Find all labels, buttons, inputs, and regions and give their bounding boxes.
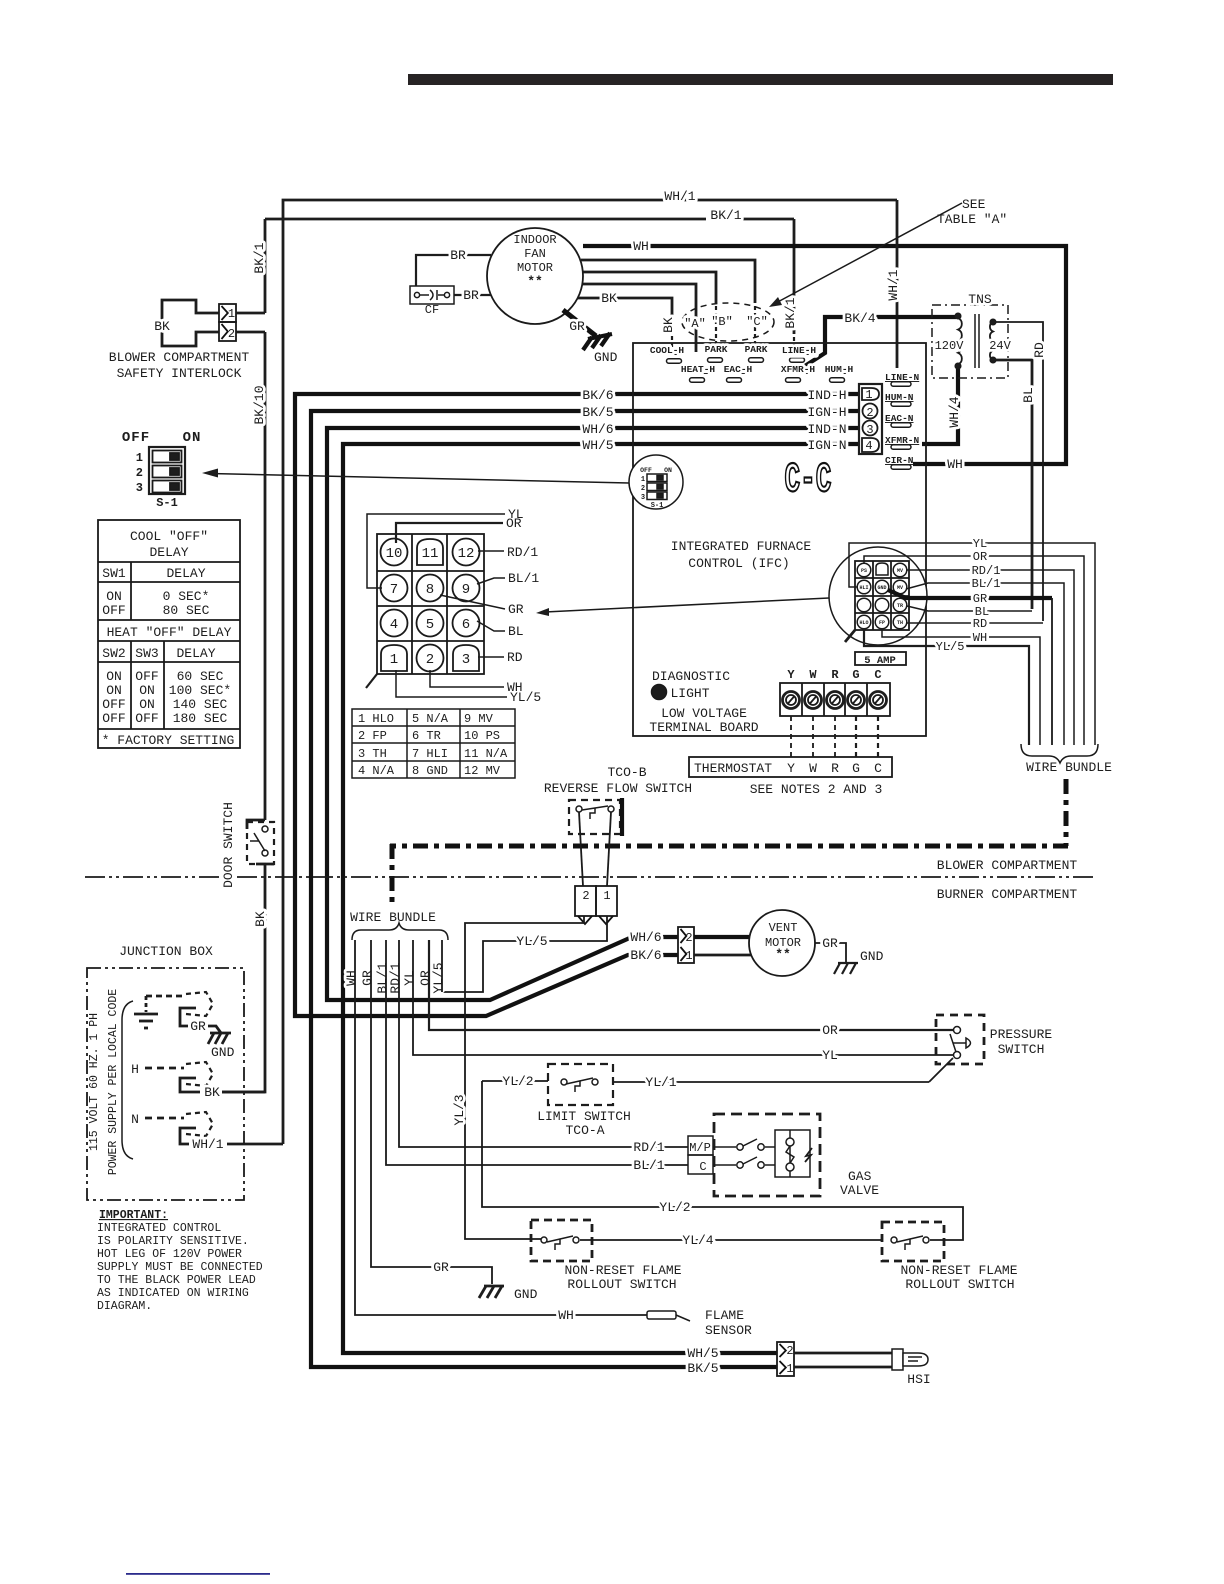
svg-text:OFF: OFF <box>122 430 150 446</box>
svg-text:RD: RD <box>973 617 987 631</box>
svg-text:1: 1 <box>786 1362 793 1376</box>
svg-text:W: W <box>809 761 817 776</box>
svg-text:HOT LEG OF 120V POWER: HOT LEG OF 120V POWER <box>97 1248 242 1261</box>
svg-text:WH/1: WH/1 <box>664 189 695 204</box>
svg-text:IMPORTANT:: IMPORTANT: <box>99 1209 168 1222</box>
svg-text:H: H <box>131 1062 139 1077</box>
svg-text:COOL-H: COOL-H <box>650 345 685 356</box>
svg-text:SENSOR: SENSOR <box>705 1323 752 1338</box>
svg-text:LOW VOLTAGE: LOW VOLTAGE <box>661 706 747 721</box>
svg-text:12 MV: 12 MV <box>464 764 501 778</box>
svg-text:WH: WH <box>558 1308 574 1323</box>
svg-text:DIAGNOSTIC: DIAGNOSTIC <box>652 669 730 684</box>
svg-text:C: C <box>699 1160 706 1174</box>
svg-text:BLOWER COMPARTMENT: BLOWER COMPARTMENT <box>937 858 1078 873</box>
svg-text:RD: RD <box>507 650 523 665</box>
svg-text:WIRE BUNDLE: WIRE BUNDLE <box>1026 760 1112 775</box>
svg-text:9 MV: 9 MV <box>464 712 494 726</box>
svg-text:WH: WH <box>947 457 963 472</box>
svg-text:GR: GR <box>360 970 375 986</box>
svg-text:GR: GR <box>190 1019 206 1034</box>
svg-text:BL: BL <box>508 624 524 639</box>
svg-text:7 HLI: 7 HLI <box>412 747 448 761</box>
svg-text:BK: BK <box>661 317 676 333</box>
svg-text:YL: YL <box>402 970 417 986</box>
svg-text:IND-H: IND-H <box>807 388 846 403</box>
svg-text:DELAY: DELAY <box>166 566 205 581</box>
svg-text:1: 1 <box>228 307 235 321</box>
svg-text:"A": "A" <box>684 317 706 331</box>
svg-text:5: 5 <box>426 617 434 633</box>
svg-text:ON: ON <box>139 697 155 712</box>
svg-text:BK: BK <box>204 1085 220 1100</box>
svg-text:OR: OR <box>973 550 987 564</box>
svg-text:YL: YL <box>973 537 987 551</box>
svg-text:LINE-H: LINE-H <box>782 345 817 356</box>
svg-text:120V: 120V <box>935 339 965 353</box>
svg-text:YL/2: YL/2 <box>659 1200 690 1215</box>
svg-text:C: C <box>874 761 882 776</box>
svg-text:24V: 24V <box>989 339 1011 353</box>
svg-text:G: G <box>852 668 859 682</box>
svg-text:BK/4: BK/4 <box>844 311 875 326</box>
svg-text:1: 1 <box>603 889 610 903</box>
svg-text:BL/1: BL/1 <box>508 571 539 586</box>
svg-text:RD/1: RD/1 <box>633 1140 664 1155</box>
svg-text:100 SEC*: 100 SEC* <box>169 683 231 698</box>
svg-text:BK/5: BK/5 <box>687 1361 718 1376</box>
svg-text:BL/1: BL/1 <box>633 1158 664 1173</box>
svg-text:YL: YL <box>822 1048 838 1063</box>
svg-text:PS: PS <box>861 568 867 574</box>
svg-text:OFF: OFF <box>102 697 125 712</box>
svg-text:MV: MV <box>897 568 903 574</box>
svg-text:HLI: HLI <box>859 585 868 591</box>
svg-text:MV: MV <box>897 585 903 591</box>
svg-text:2: 2 <box>426 652 434 668</box>
svg-text:JUNCTION BOX: JUNCTION BOX <box>119 944 213 959</box>
svg-text:* FACTORY SETTING: * FACTORY SETTING <box>102 733 235 748</box>
svg-text:10: 10 <box>386 546 403 562</box>
svg-text:12: 12 <box>458 546 475 562</box>
svg-text:GR: GR <box>973 592 987 606</box>
svg-text:Y: Y <box>787 668 795 682</box>
svg-text:VALVE: VALVE <box>840 1183 879 1198</box>
svg-text:GR: GR <box>433 1260 449 1275</box>
svg-text:BR: BR <box>450 248 466 263</box>
svg-text:DELAY: DELAY <box>149 545 188 560</box>
svg-text:HSI: HSI <box>907 1372 930 1387</box>
svg-text:XFMR-H: XFMR-H <box>781 364 816 375</box>
svg-text:2: 2 <box>228 327 235 341</box>
svg-text:THERMOSTAT: THERMOSTAT <box>694 761 772 776</box>
svg-text:S-1: S-1 <box>156 496 178 510</box>
svg-text:PARK: PARK <box>745 344 768 355</box>
svg-text:2 FP: 2 FP <box>358 729 387 743</box>
svg-text:YL/3: YL/3 <box>452 1094 467 1125</box>
svg-text:3: 3 <box>136 481 143 495</box>
svg-text:9: 9 <box>462 582 470 598</box>
svg-text:INTEGRATED FURNACE: INTEGRATED FURNACE <box>671 539 812 554</box>
svg-text:YL/1: YL/1 <box>645 1075 676 1090</box>
svg-text:FAN: FAN <box>524 247 546 261</box>
svg-text:ROLLOUT SWITCH: ROLLOUT SWITCH <box>905 1277 1014 1292</box>
svg-text:SAFETY INTERLOCK: SAFETY INTERLOCK <box>117 366 242 381</box>
svg-text:S-1: S-1 <box>651 502 664 510</box>
svg-text:2: 2 <box>685 931 692 945</box>
svg-text:SW3: SW3 <box>135 646 158 661</box>
svg-text:GR: GR <box>822 936 838 951</box>
svg-text:ON: ON <box>139 683 155 698</box>
svg-text:OFF: OFF <box>135 669 158 684</box>
svg-text:ON: ON <box>106 669 122 684</box>
svg-text:HEAT-H: HEAT-H <box>681 364 716 375</box>
svg-text:BK/1: BK/1 <box>252 242 267 273</box>
svg-text:DIAGRAM.: DIAGRAM. <box>97 1300 152 1313</box>
svg-text:BK: BK <box>154 319 170 334</box>
svg-text:ON: ON <box>664 467 672 474</box>
svg-text:BK/5: BK/5 <box>582 405 613 420</box>
svg-text:3: 3 <box>462 652 470 668</box>
svg-text:8: 8 <box>426 582 434 598</box>
svg-text:3: 3 <box>866 423 873 437</box>
svg-text:N: N <box>131 1112 139 1127</box>
svg-text:WH/6: WH/6 <box>582 422 613 437</box>
svg-text:YL/2: YL/2 <box>502 1074 533 1089</box>
svg-text:CF: CF <box>425 303 439 317</box>
svg-text:RD/1: RD/1 <box>388 962 403 993</box>
svg-text:YL/5: YL/5 <box>431 962 446 993</box>
svg-text:BK/1: BK/1 <box>783 297 798 328</box>
svg-text:"C": "C" <box>746 315 768 329</box>
svg-text:4: 4 <box>390 617 398 633</box>
svg-text:LIGHT: LIGHT <box>670 686 709 701</box>
svg-text:BL/1: BL/1 <box>972 577 1001 591</box>
svg-text:140 SEC: 140 SEC <box>173 697 228 712</box>
svg-text:YL/5: YL/5 <box>510 690 541 705</box>
svg-text:WH/1: WH/1 <box>192 1137 223 1152</box>
svg-text:TERMINAL BOARD: TERMINAL BOARD <box>649 720 758 735</box>
svg-text:GND: GND <box>594 350 618 365</box>
svg-text:**: ** <box>775 947 791 962</box>
svg-text:RD: RD <box>1032 342 1047 358</box>
svg-text:WH/1: WH/1 <box>886 269 901 300</box>
svg-text:7: 7 <box>390 582 398 598</box>
svg-text:BK/1: BK/1 <box>710 208 741 223</box>
svg-text:SEE: SEE <box>962 197 986 212</box>
svg-text:OFF: OFF <box>102 603 125 618</box>
svg-text:ON: ON <box>183 430 202 446</box>
svg-text:GND: GND <box>514 1287 538 1302</box>
svg-text:SEE NOTES 2 AND 3: SEE NOTES 2 AND 3 <box>750 782 883 797</box>
svg-text:WH/5: WH/5 <box>582 438 613 453</box>
svg-text:GR: GR <box>508 602 524 617</box>
svg-text:WH: WH <box>633 239 649 254</box>
svg-text:VENT: VENT <box>769 921 798 935</box>
svg-text:"B": "B" <box>711 315 733 329</box>
svg-text:10 PS: 10 PS <box>464 729 500 743</box>
svg-text:TCO-A: TCO-A <box>565 1123 604 1138</box>
svg-text:1: 1 <box>390 652 398 668</box>
svg-text:POWER SUPPLY PER LOCAL CODE: POWER SUPPLY PER LOCAL CODE <box>107 989 120 1175</box>
svg-text:TNS: TNS <box>968 292 992 307</box>
svg-text:LIMIT SWITCH: LIMIT SWITCH <box>537 1109 631 1124</box>
svg-text:IS POLARITY SENSITIVE.: IS POLARITY SENSITIVE. <box>97 1235 249 1248</box>
svg-text:TO THE BLACK POWER LEAD: TO THE BLACK POWER LEAD <box>97 1274 256 1287</box>
svg-text:3 TH: 3 TH <box>358 747 387 761</box>
svg-text:6 TR: 6 TR <box>412 729 441 743</box>
svg-text:BL: BL <box>1021 387 1036 403</box>
svg-text:TH: TH <box>897 620 903 626</box>
svg-text:SUPPLY MUST BE CONNECTED: SUPPLY MUST BE CONNECTED <box>97 1261 263 1274</box>
svg-text:NON-RESET FLAME: NON-RESET FLAME <box>564 1263 681 1278</box>
svg-text:DELAY: DELAY <box>176 646 215 661</box>
svg-text:NON-RESET FLAME: NON-RESET FLAME <box>900 1263 1017 1278</box>
svg-text:4 N/A: 4 N/A <box>358 764 395 778</box>
svg-text:SW2: SW2 <box>102 646 125 661</box>
svg-text:0 SEC*: 0 SEC* <box>163 589 210 604</box>
svg-text:2: 2 <box>641 485 645 493</box>
svg-text:BK/6: BK/6 <box>582 388 613 403</box>
svg-text:OFF: OFF <box>135 711 158 726</box>
svg-text:G: G <box>852 761 860 776</box>
svg-text:GND: GND <box>211 1045 235 1060</box>
svg-text:2: 2 <box>582 889 589 903</box>
svg-text:ON: ON <box>106 589 122 604</box>
svg-text:1: 1 <box>865 388 872 402</box>
svg-text:R: R <box>831 668 839 682</box>
svg-text:1 HLO: 1 HLO <box>358 712 394 726</box>
svg-text:OFF: OFF <box>640 467 652 474</box>
svg-text:1: 1 <box>641 476 645 484</box>
svg-text:SW1: SW1 <box>102 566 126 581</box>
svg-text:WH/6: WH/6 <box>630 930 661 945</box>
svg-text:REVERSE FLOW SWITCH: REVERSE FLOW SWITCH <box>544 781 692 796</box>
svg-text:INDOOR: INDOOR <box>513 233 556 247</box>
svg-text:GR: GR <box>569 319 585 334</box>
svg-text:C: C <box>874 668 881 682</box>
svg-text:FP: FP <box>879 620 885 626</box>
svg-text:DOOR SWITCH: DOOR SWITCH <box>221 802 236 888</box>
svg-text:OR: OR <box>822 1023 838 1038</box>
svg-text:GND: GND <box>877 585 886 591</box>
svg-text:TABLE "A": TABLE "A" <box>937 212 1007 227</box>
svg-text:FLAME: FLAME <box>705 1308 744 1323</box>
svg-text:BR: BR <box>463 288 479 303</box>
svg-text:YL/5: YL/5 <box>936 640 965 654</box>
svg-text:ON: ON <box>106 683 122 698</box>
svg-text:5 N/A: 5 N/A <box>412 712 449 726</box>
svg-text:BK: BK <box>253 911 268 927</box>
svg-text:BURNER COMPARTMENT: BURNER COMPARTMENT <box>937 887 1078 902</box>
svg-text:WH: WH <box>973 631 987 645</box>
svg-text:CONTROL (IFC): CONTROL (IFC) <box>688 556 789 571</box>
svg-text:5 AMP: 5 AMP <box>864 655 896 667</box>
svg-text:BK/10: BK/10 <box>252 385 267 424</box>
svg-text:TCO-B: TCO-B <box>607 765 646 780</box>
svg-text:1: 1 <box>685 949 692 963</box>
svg-text:GND: GND <box>860 949 884 964</box>
svg-text:Y: Y <box>787 761 795 776</box>
svg-text:YL/5: YL/5 <box>516 934 547 949</box>
svg-text:2: 2 <box>786 1344 793 1358</box>
svg-text:WH/4: WH/4 <box>947 396 962 427</box>
svg-text:WH: WH <box>344 970 359 986</box>
svg-text:WH/5: WH/5 <box>687 1346 718 1361</box>
svg-text:IND-N: IND-N <box>807 422 846 437</box>
svg-text:GAS: GAS <box>848 1169 872 1184</box>
svg-text:2: 2 <box>866 406 873 420</box>
svg-text:BK: BK <box>601 291 617 306</box>
svg-text:OFF: OFF <box>102 711 125 726</box>
svg-text:COOL "OFF": COOL "OFF" <box>130 529 208 544</box>
svg-text:8 GND: 8 GND <box>412 764 448 778</box>
svg-text:INTEGRATED CONTROL: INTEGRATED CONTROL <box>97 1222 221 1235</box>
svg-text:11: 11 <box>422 546 439 562</box>
svg-text:W: W <box>809 668 817 682</box>
svg-text:M/P: M/P <box>689 1141 711 1155</box>
svg-text:3: 3 <box>641 494 645 502</box>
svg-text:TR: TR <box>897 603 903 609</box>
svg-text:WIRE BUNDLE: WIRE BUNDLE <box>350 910 436 925</box>
svg-text:11 N/A: 11 N/A <box>464 747 508 761</box>
svg-text:SWITCH: SWITCH <box>998 1042 1045 1057</box>
svg-text:**: ** <box>527 274 543 289</box>
svg-text:ROLLOUT SWITCH: ROLLOUT SWITCH <box>567 1277 676 1292</box>
svg-text:2: 2 <box>136 466 143 480</box>
svg-text:60 SEC: 60 SEC <box>177 669 224 684</box>
svg-text:80 SEC: 80 SEC <box>163 603 210 618</box>
svg-text:BK/6: BK/6 <box>630 948 661 963</box>
svg-text:RD/1: RD/1 <box>972 564 1001 578</box>
svg-text:115 VOLT 60 HZ. 1 PH: 115 VOLT 60 HZ. 1 PH <box>88 1013 101 1151</box>
svg-text:PARK: PARK <box>705 344 728 355</box>
svg-text:C-C: C-C <box>785 457 832 504</box>
svg-text:MOTOR: MOTOR <box>517 261 553 275</box>
svg-text:PRESSURE: PRESSURE <box>990 1027 1053 1042</box>
svg-text:1: 1 <box>136 451 143 465</box>
svg-text:IGN-N: IGN-N <box>807 438 846 453</box>
svg-text:HUM-H: HUM-H <box>825 364 854 375</box>
svg-text:AS INDICATED ON WIRING: AS INDICATED ON WIRING <box>97 1287 249 1300</box>
svg-text:YL/4: YL/4 <box>682 1233 713 1248</box>
svg-text:180 SEC: 180 SEC <box>173 711 228 726</box>
svg-text:EAC-H: EAC-H <box>724 364 753 375</box>
svg-text:OR: OR <box>506 516 522 531</box>
svg-text:RD/1: RD/1 <box>507 545 538 560</box>
svg-text:IGN-H: IGN-H <box>807 405 846 420</box>
svg-text:4: 4 <box>865 439 872 453</box>
svg-text:HEAT "OFF" DELAY: HEAT "OFF" DELAY <box>107 625 232 640</box>
svg-text:6: 6 <box>462 617 470 633</box>
svg-text:R: R <box>831 761 839 776</box>
svg-text:HLO: HLO <box>859 620 868 626</box>
svg-text:BLOWER COMPARTMENT: BLOWER COMPARTMENT <box>109 350 250 365</box>
